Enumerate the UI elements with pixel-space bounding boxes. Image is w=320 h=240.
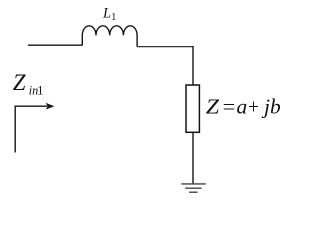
svg-text:L1: L1: [102, 6, 116, 24]
svg-text:+: +: [248, 94, 259, 118]
wire impedance to ground: [192, 132, 194, 184]
svg-text:=: =: [223, 94, 236, 118]
ground: [181, 184, 206, 192]
wire vertical to impedance: [192, 46, 194, 85]
inductor L1: [82, 26, 137, 47]
arrow Zin1 direction: [15, 106, 47, 152]
svg-text:Z: Z: [13, 70, 26, 95]
impedance Z box: [186, 85, 199, 132]
svg-text:1: 1: [37, 83, 43, 97]
svg-text:jb: jb: [261, 94, 281, 118]
wire right horizontal: [137, 46, 193, 48]
label Z = a + jb: [206, 94, 281, 118]
svg-text:a: a: [237, 94, 248, 118]
svg-text:Z: Z: [206, 94, 220, 118]
wire left horizontal: [28, 44, 82, 46]
